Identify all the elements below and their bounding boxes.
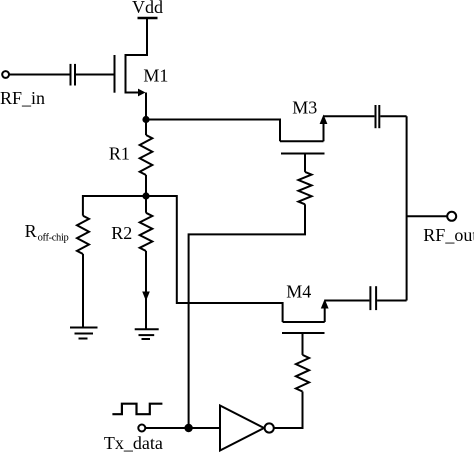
resistor M3 gate bias: [298, 154, 311, 205]
label Tx_data: [104, 433, 163, 453]
wire M4 gate resistor to inverter output: [274, 392, 302, 429]
wire Tx_data to inverter input: [145, 427, 220, 429]
capacitor C1 (input): [71, 64, 76, 86]
resistor R_off-chip: [77, 216, 89, 328]
ground (left): [70, 328, 98, 339]
ground (R2): [135, 329, 159, 339]
wire node B to R_off-chip: [83, 196, 146, 216]
wire capacitor C3 to RF_out line: [377, 300, 407, 302]
svg-text:RF_out: RF_out: [423, 225, 474, 245]
node B junction: [142, 192, 149, 199]
inverter U1: [220, 406, 274, 451]
wire RF_out stub: [407, 215, 448, 217]
wire capacitor C2 to RF_out line: [380, 115, 406, 117]
terminal Tx_data: [138, 425, 145, 432]
svg-text:M3: M3: [292, 98, 317, 118]
wire node A to M3 source: [146, 120, 280, 142]
wire RF_out vertical: [406, 116, 408, 300]
terminal RF_in: [2, 71, 9, 78]
transistor M4: [282, 299, 329, 333]
resistor R2: [140, 196, 153, 329]
wire M4 drain to capacitor: [325, 300, 370, 302]
wire M3 gate to Tx node: [189, 204, 305, 428]
label R2: [111, 223, 132, 243]
capacitor C2 (top): [376, 105, 380, 128]
transistor M1: [115, 54, 146, 96]
resistor M4 gate bias: [296, 333, 309, 392]
svg-text:R2: R2: [111, 223, 132, 243]
svg-text:Vdd: Vdd: [132, 0, 163, 17]
power Vdd bar: [138, 17, 158, 19]
svg-text:M4: M4: [286, 282, 311, 302]
power Vdd label: [132, 0, 163, 17]
wire capacitor to M1 gate: [76, 74, 114, 76]
node C junction (Tx_data): [184, 424, 192, 432]
capacitor C3 (bottom): [370, 286, 376, 310]
transistor M3: [280, 115, 327, 154]
label M4: [286, 282, 311, 302]
svg-text:M1: M1: [143, 65, 168, 85]
label R1: [109, 144, 130, 164]
arrow on R2 branch: [142, 292, 150, 302]
wire Vdd to M1 drain: [126, 18, 148, 55]
wire M1 source to node A: [145, 93, 147, 120]
square wave symbol: [112, 404, 162, 415]
label RF_out: [423, 225, 474, 245]
resistor R1: [140, 120, 153, 197]
wire M3 drain to capacitor: [324, 115, 375, 117]
svg-text:RF_in: RF_in: [0, 88, 45, 108]
label R_off-chip: [25, 221, 69, 244]
svg-text:R: R: [25, 221, 37, 241]
label M1: [143, 65, 168, 85]
terminal RF_out: [447, 212, 456, 221]
node A junction: [142, 116, 149, 123]
svg-text:Tx_data: Tx_data: [104, 433, 163, 453]
label M3: [292, 98, 317, 118]
wire node B to M4 source: [146, 196, 283, 322]
svg-text:R1: R1: [109, 144, 130, 164]
svg-text:off-chip: off-chip: [38, 233, 69, 244]
label RF_in: [0, 88, 45, 108]
wire RF_in to capacitor: [9, 74, 70, 76]
